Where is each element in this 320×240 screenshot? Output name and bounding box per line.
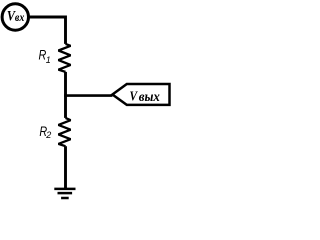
svg-text:2: 2: [45, 130, 51, 140]
ground: [54, 189, 75, 198]
label R2: [39, 123, 51, 140]
wire R1 to node: [64, 72, 67, 96]
wire from source to R1: [30, 17, 66, 44]
wire R2 to ground: [64, 146, 67, 189]
svg-text:вых: вых: [139, 90, 160, 105]
wire node to R2: [64, 96, 67, 118]
node: wire to output flag: [64, 94, 112, 97]
resistor R1: [58, 44, 70, 72]
label R1: [39, 47, 51, 65]
output flag Vвых: [112, 84, 169, 105]
voltage source circle Vвх: [2, 4, 28, 30]
svg-text:вх: вх: [15, 10, 24, 24]
label Vвых: [130, 89, 160, 105]
svg-text:V: V: [130, 89, 139, 104]
svg-text:1: 1: [46, 55, 51, 65]
resistor R2: [58, 118, 70, 146]
label Vвх: [7, 9, 24, 25]
